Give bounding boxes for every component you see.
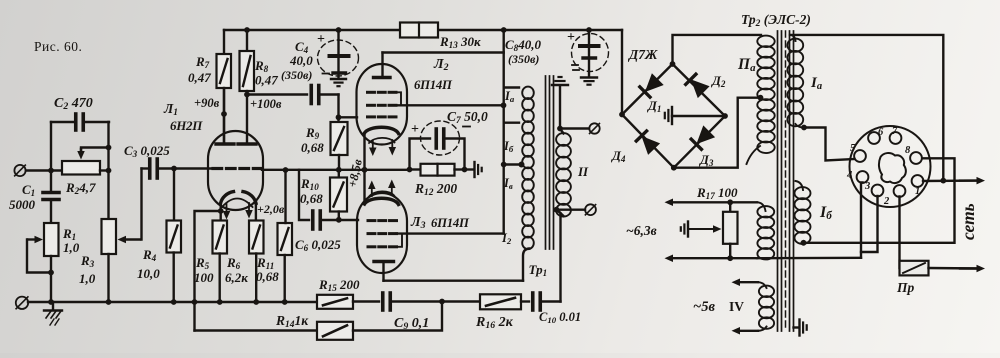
svg-text:R5: R5 [195,255,210,271]
L1 cathode1 lead [219,204,221,221]
Tr2 primary bottom end [747,146,761,164]
wire to L3 grid [339,219,358,221]
L3 anode wire [384,280,524,282]
svg-text:R13 30к: R13 30к [439,34,481,50]
svg-text:Л1: Л1 [163,101,178,118]
wire R4 top lead [173,169,175,221]
bridge diamond [622,64,725,168]
node rail R3 [106,299,112,305]
C7 dashed circle [421,121,460,155]
svg-text:Д7Ж: Д7Ж [627,47,658,62]
svg-text:Пр: Пр [896,280,915,295]
winding IV bottom lead [758,327,767,331]
svg-text:6: 6 [878,127,884,138]
svg-text:7: 7 [892,126,898,137]
L2 cathode arc [365,127,399,133]
socket pin 8 [910,152,922,164]
Tr2 Ib winding [795,187,811,199]
svg-text:~6,3в: ~6,3в [626,223,657,238]
winding IV top lead [758,282,767,288]
6.3v ground [687,222,689,237]
wire R14 row [195,329,318,331]
node R9 R10 [336,167,342,173]
wire C3 to L1 grid [174,167,213,169]
Tr2 Ib top end [796,181,804,190]
capacitor C7 electrolytic [410,139,431,170]
fuse Pr [900,261,929,276]
svg-text:R16 2к: R16 2к [475,315,514,331]
svg-text:5000: 5000 [9,197,36,212]
L2 anode [374,76,391,79]
resistor R11 [278,223,293,255]
wire bridge bottom to tap [674,98,758,168]
C4 ground [331,78,346,80]
L3 heater arrow 2 [391,188,393,195]
L3 heater arc [369,191,395,196]
node R7 90v [221,111,227,117]
L3 cathode arc [365,198,399,204]
svg-text:R12 200: R12 200 [414,181,457,198]
node screen L2 [501,102,507,108]
Tr2 core ground [794,326,799,328]
resistor R3 potentiometer [102,219,117,254]
L2 grid1 dashes [368,115,375,118]
L3 anode [374,260,394,263]
svg-text:(350в): (350в) [281,68,312,82]
C8 ground [581,76,597,78]
C7 minus [463,126,470,128]
svg-text:R10: R10 [300,176,319,192]
svg-text:Л3: Л3 [410,215,426,231]
L1 heater arrow 1 [226,204,228,211]
svg-text:4: 4 [846,170,852,181]
supply bus Tr1 [501,27,507,33]
svg-text:II: II [577,164,589,179]
svg-text:R17 100: R17 100 [696,185,738,201]
Tr2 primary anode winding [757,36,774,48]
svg-text:100: 100 [194,270,214,285]
input terminal bottom [16,297,28,309]
6.3v ground arrow [689,228,713,230]
capacitor C9 [381,293,385,310]
feedback wire cathode1 [195,211,221,331]
wire input to R2 [26,169,62,171]
supply rail [224,29,400,31]
input terminal top [14,165,25,176]
R3 wiper wire [126,238,140,240]
svg-text:C840,0: C840,0 [505,37,541,53]
C4 minus [323,73,330,75]
L2 screen wire [396,104,504,106]
Tr2 heater winding [757,206,774,217]
capacitor C10 [531,293,535,310]
Tr2 core [777,31,779,331]
L2 heater arrow 1 [372,141,374,148]
svg-text:Тр1: Тр1 [529,262,548,278]
svg-text:+: + [411,122,419,137]
svg-text:3: 3 [864,181,870,192]
svg-text:10,0: 10,0 [137,266,160,281]
svg-text:+2,0в: +2,0в [257,202,285,216]
svg-text:R8: R8 [254,58,269,74]
svg-text:1: 1 [915,186,920,197]
svg-text:R9: R9 [305,125,320,141]
svg-text:1,0: 1,0 [79,271,96,286]
mains arrow bottom [960,267,977,269]
resistor R14 [317,322,353,340]
Tr1 primary tap1 [504,121,519,123]
svg-text:0,68: 0,68 [301,140,324,155]
capacitor C3 [148,159,152,178]
svg-text:Д1: Д1 [647,98,661,114]
svg-text:C3 0,025: C3 0,025 [124,143,170,159]
resistor R12 [407,167,413,173]
wire fuse to mains [929,267,981,270]
node Ib bottom [801,240,807,246]
ground rail bottom [28,301,317,303]
resistor R17 potentiometer [729,202,731,212]
svg-text:Д3: Д3 [699,152,714,168]
L1 cathode 2 arc [243,192,256,204]
socket pin 5 [854,150,866,162]
socket pin 2 [894,185,906,197]
node anode2 [244,92,250,98]
diode D3 [697,126,714,143]
svg-text:+100в: +100в [250,97,282,111]
svg-text:5: 5 [850,143,855,154]
svg-text:Рис. 60.: Рис. 60. [34,39,82,54]
resistor R10 [338,170,340,178]
resistor R1 potentiometer [44,223,59,256]
socket pin 6 [868,132,880,144]
svg-text:IV: IV [729,299,744,314]
capacitor C6 [299,170,309,220]
wire C5 to R9 [337,95,339,118]
node R10 C6 [336,217,342,223]
svg-text:2: 2 [883,196,890,207]
wire Ia bottom to pin5 [796,124,805,128]
svg-text:Ia: Ia [810,75,822,92]
wire to L2 grid [339,116,358,118]
bridge center ground [671,107,673,124]
svg-text:R3: R3 [80,253,95,269]
Tr1 primary tap2 [501,162,507,168]
svg-text:+8,5в: +8,5в [345,158,365,189]
capacitor C8 electrolytic [588,30,590,44]
svg-text:C2 470: C2 470 [54,96,93,112]
node feedback R14 [439,299,445,305]
resistor R2 potentiometer [62,161,100,175]
node mains top [940,178,946,184]
wire bridge top to Tr2 [673,35,762,64]
L2 grid3 dashes [368,91,375,94]
L1 anode 1 [216,142,234,145]
svg-text:+90в: +90в [194,96,220,110]
node input junction [48,168,54,174]
svg-text:R24,7: R24,7 [65,180,96,196]
svg-text:+: + [567,30,575,45]
wire C2 left leg [50,122,52,171]
resistor R7 [223,30,225,54]
Tr2 winding IV [759,286,774,298]
socket key hole [879,153,906,183]
wire pin2 to fuse [898,197,900,269]
svg-text:R6: R6 [226,255,241,271]
L3 heater arrow 1 [371,189,373,196]
svg-text:6П14П: 6П14П [431,216,470,230]
C8 dashed circle [572,34,609,72]
L1 heater arc [222,199,253,208]
resistor R16 [480,294,521,309]
node rail C1 [48,299,54,305]
svg-text:R15 200: R15 200 [318,277,360,293]
mains arrow top [960,179,977,181]
svg-text:C7 50,0: C7 50,0 [447,109,488,126]
L1 heater arrow 2 [248,203,250,210]
L1 cathode 1 arc [221,192,234,204]
C4 dashed circle [318,40,359,76]
wire C9 to R16 [391,300,480,302]
socket pin 7 [890,132,902,144]
capacitor C5 [247,93,307,95]
svg-text:Д2: Д2 [711,73,726,89]
svg-text:~5в: ~5в [693,299,716,315]
cathode bus vertical [363,133,365,203]
resistor R8 [244,27,250,33]
resistor R5 [213,221,228,254]
svg-text:Iб: Iб [819,204,832,222]
node bridge top [670,61,676,67]
svg-text:Л2: Л2 [433,57,449,73]
wire pin4 [861,183,863,258]
ground symbol input [52,302,54,310]
svg-text:C1: C1 [22,182,35,198]
svg-text:Iв: Iв [503,176,513,191]
Tr1 core [545,76,547,249]
tube L3 envelope [357,193,407,273]
L2 heater arrow 2 [391,140,393,147]
node heater bottom R17 [727,255,733,261]
socket pin 3 [872,185,884,197]
Tr1 secondary coil [556,133,571,146]
heater top wire [757,202,766,211]
svg-text:Д4: Д4 [611,148,626,164]
svg-text:8: 8 [905,145,911,156]
wire pin1 mains [923,179,980,182]
Tr1 secondary top [560,86,564,134]
Tr1 secondary bottom [557,210,564,216]
node heater top R17 [727,199,733,205]
wire rail to bridge [621,30,623,115]
feedback tap wire [557,210,561,302]
Tr2 Ia top wire [790,35,796,41]
svg-text:сеть: сеть [958,203,978,240]
L2 grid3 link [396,92,401,105]
node rail C8 [586,27,592,33]
svg-text:6Н2П: 6Н2П [170,118,203,133]
resistor R13 [400,23,438,38]
tube L2 envelope [357,64,408,145]
svg-text:0,68: 0,68 [256,269,279,284]
L2 anode wire [383,51,504,53]
diode D1 [646,74,663,91]
socket pin 1 [912,175,924,187]
svg-text:1,0: 1,0 [63,240,80,255]
L2 heater arc [369,138,395,143]
wire C10 to tap [541,300,561,302]
node bridge bottom [671,165,677,171]
svg-text:6,2к: 6,2к [225,270,248,285]
wire pin3 [861,196,878,252]
resistor R6 [249,221,264,254]
svg-text:Iб: Iб [503,139,514,154]
socket pin 4 [857,171,869,183]
R2 wiper wire [81,148,109,151]
wire R15 to C9 [353,300,379,302]
node bridge left [619,112,625,118]
L3 screen wire [397,232,504,234]
wire left bus x108 [107,122,109,219]
Tr2 Ia winding [787,39,803,52]
node rail R4 [171,299,177,305]
svg-text:+: + [317,32,325,47]
svg-text:C6 0,025: C6 0,025 [295,237,341,253]
wire R14 to node [353,302,442,331]
wire R2 right to bus [100,169,109,171]
output terminal 2 [585,204,596,215]
svg-text:40,0: 40,0 [289,53,313,68]
capacitor C1 [43,191,59,195]
capacitor C2 [74,114,78,130]
svg-text:6П14П: 6П14П [414,78,453,92]
tube L1 envelope [208,131,263,210]
wire R16 to C10 [521,300,529,302]
L2 grid2 dashes [368,104,375,107]
svg-text:(350в): (350в) [508,52,539,66]
svg-text:R4: R4 [142,247,157,263]
Tr1 secondary ground [552,84,568,86]
R12 ground [465,168,474,170]
node Ia bottom [801,125,807,131]
socket circle [850,126,931,207]
L1 anode 2 [238,142,256,145]
svg-text:Пa: Пa [737,56,756,74]
C8 minus [572,64,578,66]
node Tr2 primary tap [758,95,764,101]
node rail feedback [192,299,198,305]
node bridge right [722,113,728,119]
svg-text:Тр2 (ЭЛС-2): Тр2 (ЭЛС-2) [741,12,811,29]
svg-text:R141к: R141к [275,313,309,330]
svg-text:0,47: 0,47 [255,73,278,88]
svg-text:0,47: 0,47 [188,70,211,85]
svg-text:0,68: 0,68 [300,191,323,206]
svg-text:C10 0.01: C10 0.01 [539,310,581,325]
resistor R9 [337,117,339,122]
node C3 grid [171,166,177,172]
diode D4 [642,137,659,154]
resistor R15 [317,295,353,309]
Tr1 primary top lead [504,86,519,88]
L1 grid dashes [213,167,222,170]
L3 grid2 dashes [368,232,375,235]
svg-text:I2: I2 [501,231,512,246]
resistor R4 [167,221,182,253]
Tr1 primary coil [522,87,534,99]
diode D2 [692,80,709,97]
svg-text:R7: R7 [195,54,210,70]
wire Ib to pin8 [802,241,805,243]
L1 cathode2 lead [255,203,257,220]
svg-text:Ia: Ia [504,89,515,104]
R1 wiper wire [28,238,35,240]
L3 grid3 dashes [368,245,375,248]
L3 grid1 dashes [368,219,375,222]
heater bottom wire [673,257,757,259]
L3 grid3 link [397,234,403,247]
output terminal 1 [589,123,599,133]
wire R11 top lead [284,170,286,223]
phase splitter bus wire [262,169,409,171]
capacitor C4 electrolytic [336,27,342,33]
